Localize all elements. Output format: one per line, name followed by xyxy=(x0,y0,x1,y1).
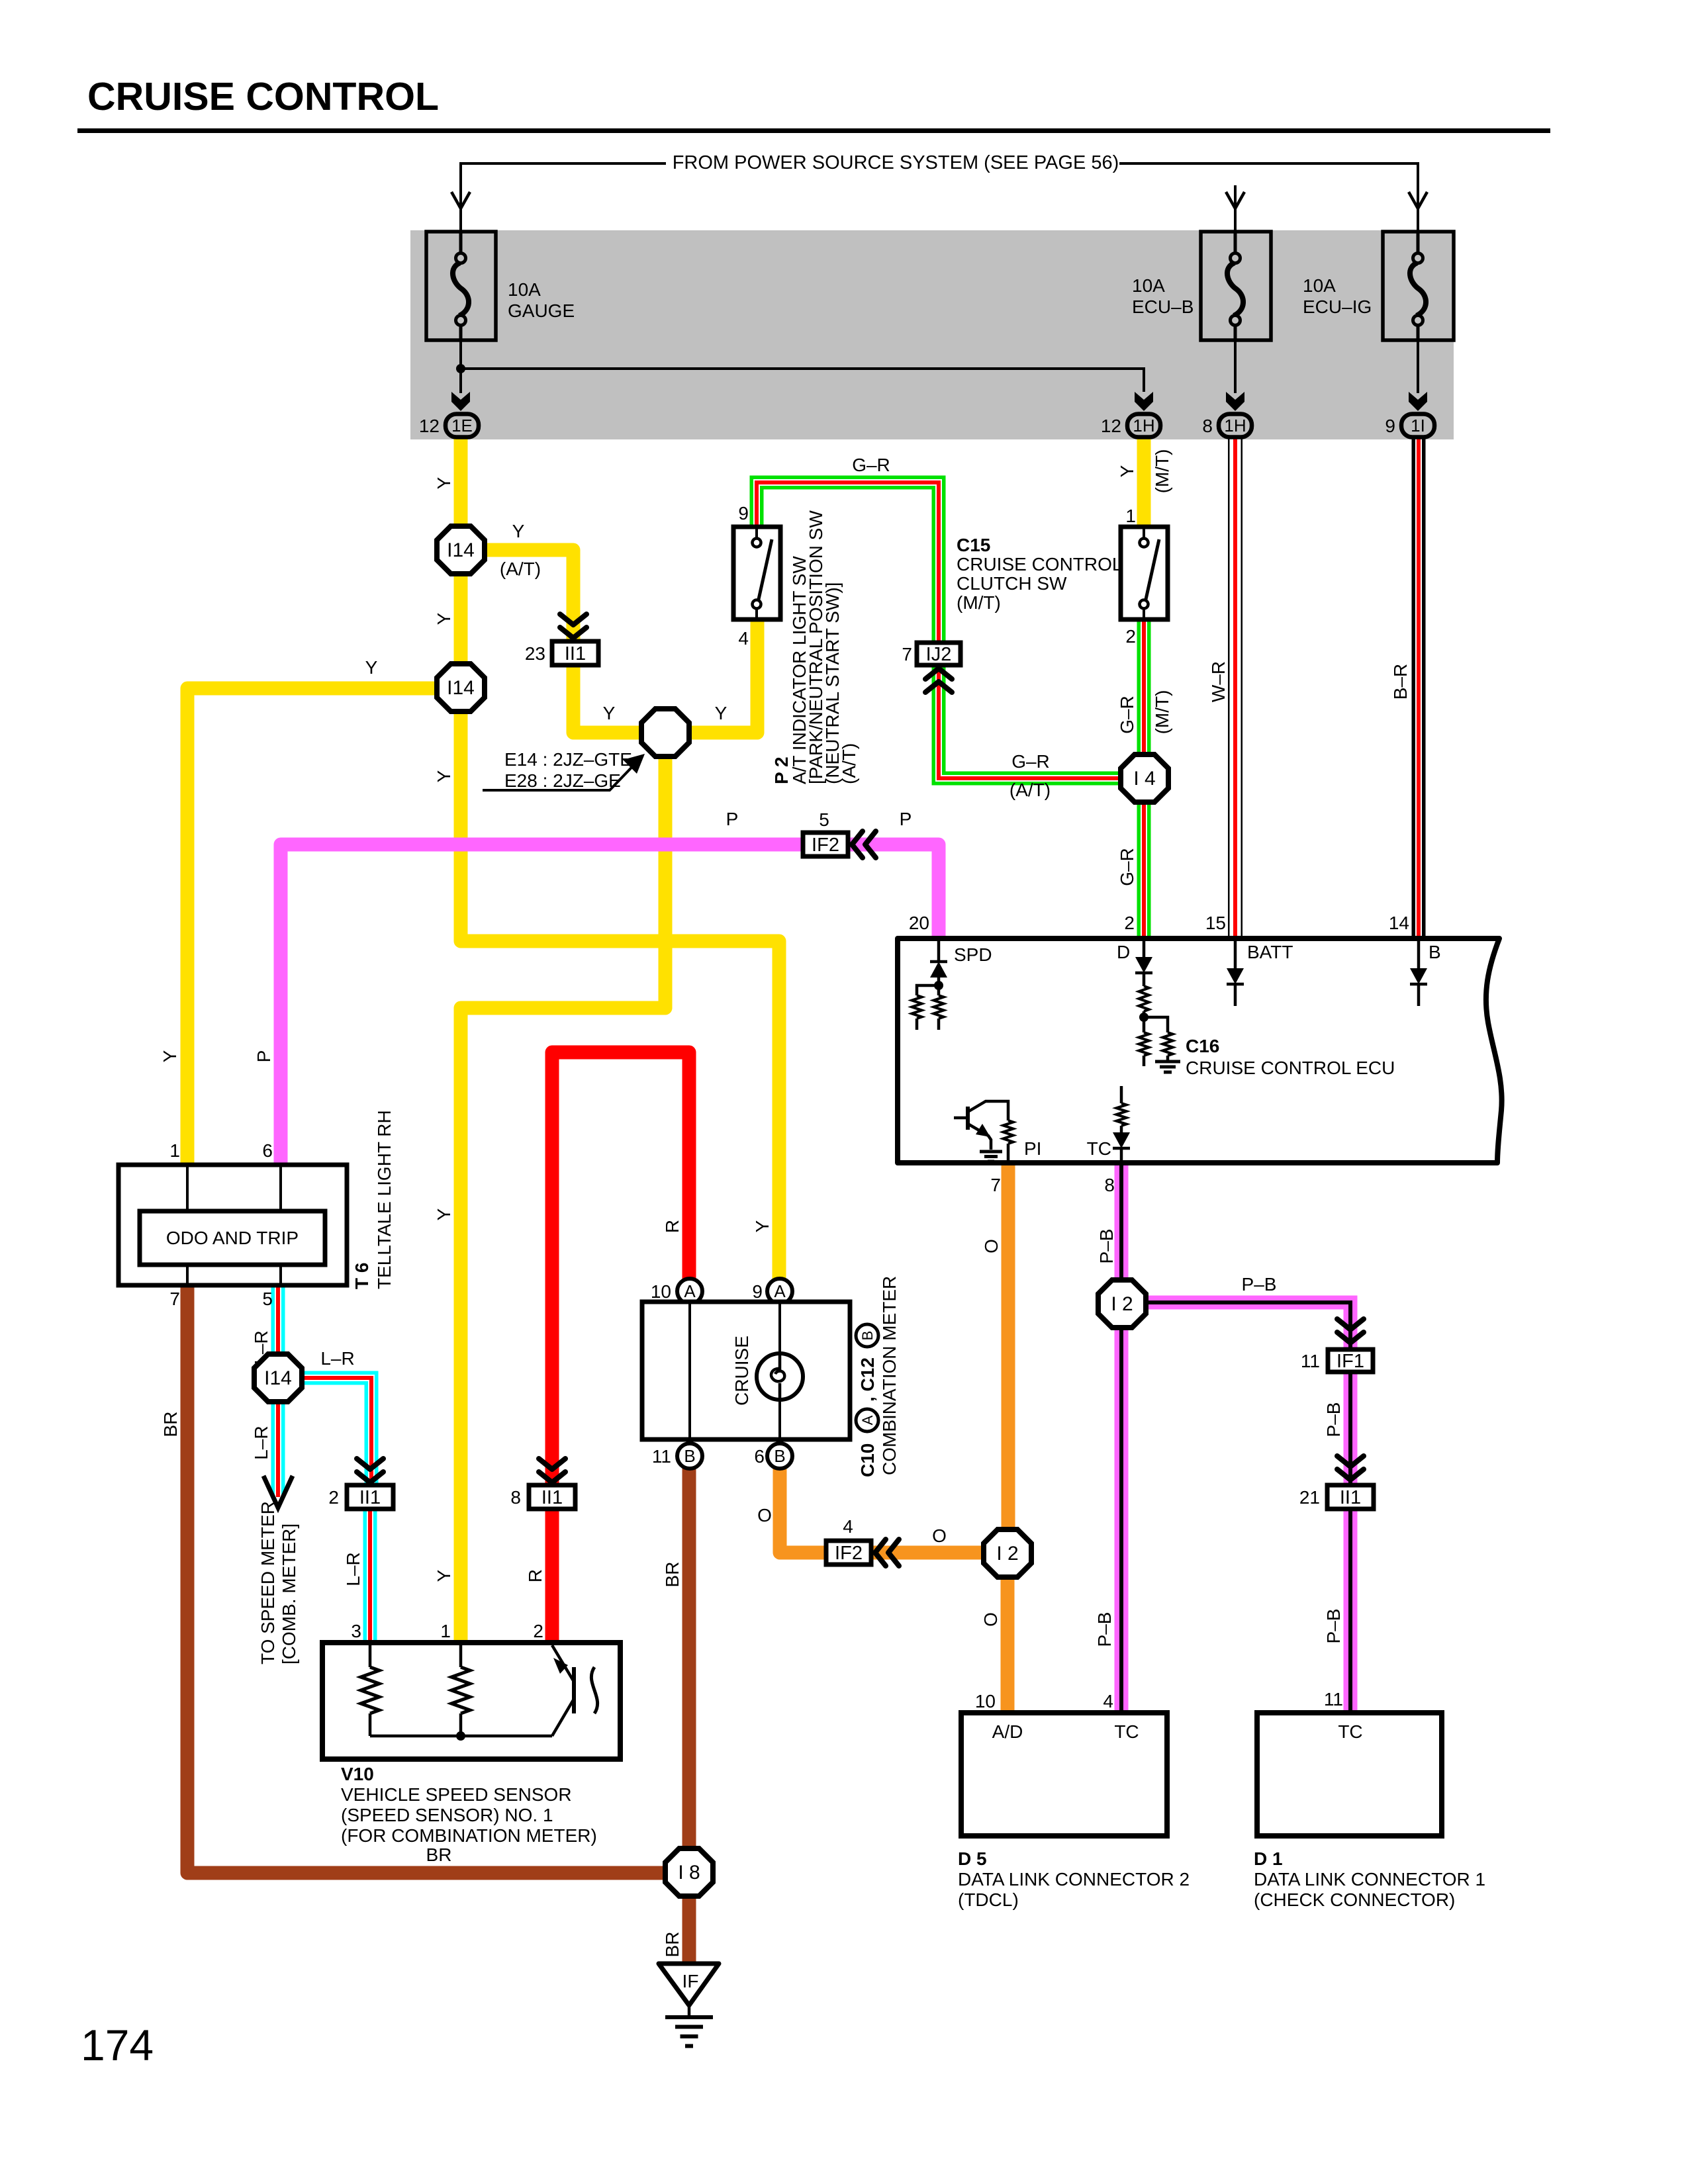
svg-text:I 2: I 2 xyxy=(996,1543,1018,1565)
svg-text:Y: Y xyxy=(434,1208,454,1220)
svg-text:A: A xyxy=(774,1281,786,1301)
wire fuse ECU-B to oval 1H-8 xyxy=(1234,340,1237,393)
combination meter cruise lamp box xyxy=(642,1302,850,1439)
wire O combination meter pin 6B to connector IF2 xyxy=(780,1466,828,1553)
wire fuse GAUGE output junction to fuse 1H-12 xyxy=(461,340,1144,392)
gray power-source strip xyxy=(410,230,1454,439)
fuse 10A ECU-B xyxy=(1201,232,1271,340)
svg-text:7: 7 xyxy=(902,644,912,664)
wire L-R connector II1-2 to V10 pin 3 xyxy=(363,1509,377,1644)
wire BR junction I8 to ground IF xyxy=(682,1894,696,1964)
junction connector I4 xyxy=(1121,754,1168,802)
meter pin 10 circle A xyxy=(677,1279,702,1304)
svg-text:P–B: P–B xyxy=(1323,1609,1344,1644)
junction connector I14 speed xyxy=(254,1354,302,1402)
svg-text:DATA LINK CONNECTOR 1: DATA LINK CONNECTOR 1 xyxy=(1254,1869,1485,1889)
svg-text:10A: 10A xyxy=(1303,275,1336,296)
switch C15 cruise control clutch xyxy=(1121,527,1168,619)
svg-text:12: 12 xyxy=(419,416,440,436)
svg-text:12: 12 xyxy=(1101,416,1121,436)
V10 resistor 2 xyxy=(459,1645,463,1667)
svg-text:Y: Y xyxy=(365,657,378,678)
wire W-R fuse 1H-8 to ECU pin 15 BATT xyxy=(1228,433,1243,938)
wire stub above fuse ECU-B xyxy=(1234,185,1237,232)
svg-text:(CHECK CONNECTOR): (CHECK CONNECTOR) xyxy=(1254,1889,1455,1910)
wire Y junction I14 lower to telltale T6 pin 1 xyxy=(187,688,440,1166)
ECU pin B diode xyxy=(1417,938,1421,968)
meter pin 6 circle B xyxy=(767,1443,792,1469)
wire Y fuse 1H-12 to clutch switch C15 pin 1 xyxy=(1137,433,1151,529)
svg-text:10: 10 xyxy=(975,1691,996,1711)
oval connector 1I pin 9 xyxy=(1385,414,1434,437)
svg-text:Y: Y xyxy=(512,521,525,541)
wire O ECU pin 7 PI to junction I2 xyxy=(1002,1161,1015,1532)
svg-text:B–R: B–R xyxy=(1390,664,1411,700)
svg-text:IF: IF xyxy=(682,1971,699,1991)
svg-text:BR: BR xyxy=(662,1562,682,1588)
svg-text:VEHICLE SPEED SENSOR: VEHICLE SPEED SENSOR xyxy=(341,1784,572,1805)
svg-text:P–B: P–B xyxy=(1323,1402,1344,1437)
svg-text:I14: I14 xyxy=(447,677,475,699)
svg-text:IF2: IF2 xyxy=(812,835,839,856)
svg-text:TELLTALE LIGHT RH: TELLTALE LIGHT RH xyxy=(374,1110,395,1289)
svg-text:11: 11 xyxy=(1324,1689,1343,1709)
svg-text:Y: Y xyxy=(434,612,454,625)
arrow into fuse ECU-B xyxy=(1226,192,1244,208)
svg-text:E28 : 2JZ–GE: E28 : 2JZ–GE xyxy=(504,770,621,791)
svg-text:10A: 10A xyxy=(508,279,541,300)
wire B-R fuse 1I-9 to ECU pin 14 B xyxy=(1412,433,1426,938)
wire fuse GAUGE to oval 1E xyxy=(459,369,462,393)
connector IF2 pin 4 xyxy=(826,1541,871,1565)
svg-text:4: 4 xyxy=(1103,1691,1113,1711)
chevron into II1-8 xyxy=(539,1459,565,1482)
wire P telltale T6 pin 6 to connector IF2 xyxy=(281,844,805,1166)
svg-text:11: 11 xyxy=(652,1446,671,1467)
connector II1-23 xyxy=(552,641,598,665)
wire Y engine junction to P2 pin 4 xyxy=(688,617,757,733)
wire from power source right segment xyxy=(1119,163,1418,232)
svg-text:1H: 1H xyxy=(1224,416,1246,435)
data link connector D5 box xyxy=(961,1713,1167,1836)
svg-text:ECU–B: ECU–B xyxy=(1132,296,1194,317)
svg-text:10A: 10A xyxy=(1132,275,1165,296)
svg-text:(A/T): (A/T) xyxy=(1009,780,1051,800)
wire P connector IF2 to ECU pin 20 xyxy=(847,844,939,938)
ground hatching xyxy=(665,2017,713,2046)
svg-text:(A/T): (A/T) xyxy=(500,559,541,579)
wire G-R connector IJ2 to junction I4 xyxy=(939,664,1123,778)
svg-text:DATA LINK CONNECTOR 2: DATA LINK CONNECTOR 2 xyxy=(958,1869,1190,1889)
svg-text:CRUISE CONTROL: CRUISE CONTROL xyxy=(87,75,439,118)
svg-text:2: 2 xyxy=(533,1621,543,1641)
svg-text:A: A xyxy=(684,1281,696,1301)
svg-text:Y: Y xyxy=(752,1220,773,1232)
connector IJ2 pin 7 xyxy=(917,643,961,665)
oval connector 1H pin 8 xyxy=(1202,414,1252,437)
svg-text:IF1: IF1 xyxy=(1336,1351,1364,1372)
wire fuse ECU-IG to oval 1I-9 xyxy=(1417,340,1419,393)
svg-text:Y: Y xyxy=(160,1050,180,1062)
wire O connector IF2 to junction I2 xyxy=(870,1546,986,1560)
svg-text:BATT: BATT xyxy=(1247,942,1293,962)
svg-text:8: 8 xyxy=(510,1487,521,1508)
wire O junction I2 to D5 pin 10 xyxy=(1001,1575,1015,1714)
ECU pin TC circuit xyxy=(1120,1086,1123,1103)
svg-text:(M/T): (M/T) xyxy=(957,592,1001,613)
svg-text:CLUTCH SW: CLUTCH SW xyxy=(957,573,1067,594)
svg-text:PI: PI xyxy=(1024,1138,1041,1159)
wire P-B junction I2 to connector IF1 xyxy=(1144,1302,1350,1351)
oval connector 1H pin 12 xyxy=(1101,414,1160,437)
svg-text:D: D xyxy=(1117,942,1130,962)
svg-text:174: 174 xyxy=(81,2021,154,2070)
svg-text:Y: Y xyxy=(434,1569,454,1582)
svg-text:GAUGE: GAUGE xyxy=(508,300,575,321)
svg-text:Y: Y xyxy=(434,477,454,489)
ECU pin BATT diode xyxy=(1234,938,1237,968)
svg-text:9: 9 xyxy=(752,1281,763,1302)
svg-text:4: 4 xyxy=(843,1516,853,1537)
svg-text:A/D: A/D xyxy=(992,1721,1023,1742)
chevron into II1-2 xyxy=(357,1459,383,1482)
wire from power source left segment xyxy=(461,163,666,232)
arrow into fuse GAUGE xyxy=(451,192,470,208)
svg-text:L–R: L–R xyxy=(343,1552,363,1586)
svg-text:TC: TC xyxy=(1114,1721,1139,1742)
svg-text:II1: II1 xyxy=(541,1487,563,1508)
svg-text:A: A xyxy=(859,1415,876,1425)
V10 internal bus xyxy=(370,1735,552,1738)
svg-text:P: P xyxy=(900,809,912,829)
svg-text:6: 6 xyxy=(262,1140,273,1161)
svg-text:FROM POWER SOURCE SYSTEM (SEE: FROM POWER SOURCE SYSTEM (SEE PAGE 56) xyxy=(673,152,1119,173)
junction connector I14 upper xyxy=(437,526,485,574)
arrow to speed meter xyxy=(263,1476,293,1508)
fuse 10A ECU-IG xyxy=(1383,232,1454,340)
svg-text:G–R: G–R xyxy=(1117,848,1137,886)
ECU C16 cruise control ECU box xyxy=(898,938,1502,1163)
ODO AND TRIP box xyxy=(140,1211,325,1265)
connector II1-2 xyxy=(347,1485,393,1509)
svg-text:TC: TC xyxy=(1338,1721,1362,1742)
chevron right of IF2 lower xyxy=(875,1539,899,1566)
chevron into connector II1-23 xyxy=(560,614,586,638)
wire P-B ECU pin 8 TC to junction I2 xyxy=(1115,1161,1129,1282)
svg-text:BR: BR xyxy=(662,1932,682,1958)
svg-text:23: 23 xyxy=(525,643,545,664)
svg-text:, C12: , C12 xyxy=(857,1357,878,1402)
svg-text:Y: Y xyxy=(715,703,727,723)
wire L-R junction I14 to speed meter arrow xyxy=(271,1400,285,1497)
svg-text:CRUISE CONTROL: CRUISE CONTROL xyxy=(957,554,1122,574)
wire Y junction I14 to connector II1-23 xyxy=(483,550,573,640)
chevron below connector IJ2 xyxy=(925,668,952,692)
svg-text:IF2: IF2 xyxy=(835,1543,863,1564)
svg-text:R: R xyxy=(662,1220,682,1233)
svg-text:2: 2 xyxy=(1124,913,1135,933)
svg-text:I 8: I 8 xyxy=(678,1862,700,1884)
chevron right of IF2 xyxy=(852,831,876,858)
ECU transistor PI circuit xyxy=(966,1107,970,1130)
svg-text:CRUISE: CRUISE xyxy=(731,1336,752,1406)
svg-text:8: 8 xyxy=(1202,416,1213,436)
svg-text:1H: 1H xyxy=(1133,416,1154,435)
svg-text:6: 6 xyxy=(754,1446,765,1467)
svg-text:P: P xyxy=(726,809,739,829)
svg-text:T 6: T 6 xyxy=(352,1263,372,1289)
chevron into IF1 xyxy=(1337,1319,1364,1343)
svg-text:2: 2 xyxy=(1125,626,1136,647)
svg-text:5: 5 xyxy=(819,809,829,830)
svg-text:B: B xyxy=(859,1331,876,1341)
svg-text:1: 1 xyxy=(169,1140,180,1161)
svg-text:BR: BR xyxy=(160,1412,181,1437)
svg-text:G–R: G–R xyxy=(852,455,890,475)
svg-text:I 4: I 4 xyxy=(1133,768,1155,790)
svg-text:14: 14 xyxy=(1389,913,1409,933)
svg-text:G–R: G–R xyxy=(1011,751,1050,772)
connector II1-21 xyxy=(1327,1485,1374,1509)
svg-text:R: R xyxy=(525,1569,545,1582)
svg-text:G–R: G–R xyxy=(1117,696,1137,734)
svg-text:TO SPEED METER: TO SPEED METER xyxy=(258,1501,278,1664)
svg-text:BR: BR xyxy=(426,1844,452,1865)
solid arrow into oval 1I-9 xyxy=(1409,392,1427,411)
svg-text:O: O xyxy=(757,1505,772,1525)
svg-text:COMBINATION METER: COMBINATION METER xyxy=(879,1276,900,1475)
wire G-R P2 pin 9 loop to connector IJ2 xyxy=(757,482,939,643)
oval connector 1E pin 12 xyxy=(419,414,479,437)
wire G-R clutch switch C15 pin 2 to junction I4 xyxy=(1137,617,1151,756)
meter pin 9 circle A xyxy=(767,1279,792,1304)
svg-text:L–R: L–R xyxy=(320,1348,354,1369)
junction dot below fuse GAUGE xyxy=(456,364,465,373)
svg-text:(SPEED SENSOR) NO. 1: (SPEED SENSOR) NO. 1 xyxy=(341,1805,553,1825)
svg-text:(FOR COMBINATION METER): (FOR COMBINATION METER) xyxy=(341,1825,597,1846)
V10 pickup transistor xyxy=(552,1645,574,1682)
engine junction octagon xyxy=(641,709,689,756)
svg-text:1: 1 xyxy=(440,1621,451,1641)
connector IF1 pin 11 xyxy=(1328,1349,1373,1372)
svg-text:I14: I14 xyxy=(264,1367,292,1389)
wire Y engine junction down-left to V10 pin 1 xyxy=(461,754,665,1644)
wire BR combination meter pin 11B to junction I8 xyxy=(682,1466,696,1850)
svg-text:D 5: D 5 xyxy=(958,1848,987,1869)
svg-text:(TDCL): (TDCL) xyxy=(958,1889,1019,1910)
wire L-R junction I14 to connector II1-2 xyxy=(300,1378,371,1486)
wire L-R telltale T6 pin 5 to junction I14 xyxy=(271,1287,285,1356)
svg-text:P–B: P–B xyxy=(1096,1229,1117,1264)
svg-text:4: 4 xyxy=(738,628,749,649)
svg-text:C15: C15 xyxy=(957,535,990,555)
svg-text:P–B: P–B xyxy=(1242,1274,1277,1295)
wire G-R junction I4 to ECU pin 2 D xyxy=(1137,800,1151,938)
title rule xyxy=(77,128,1550,133)
svg-text:1I: 1I xyxy=(1411,416,1425,435)
svg-text:(M/T): (M/T) xyxy=(1152,449,1172,494)
svg-text:SPD: SPD xyxy=(954,944,992,965)
svg-text:D 1: D 1 xyxy=(1254,1848,1283,1869)
svg-text:Y: Y xyxy=(434,770,454,782)
wire P-B connector IF1 to connector II1-21 xyxy=(1344,1370,1358,1486)
svg-text:II1: II1 xyxy=(1340,1487,1361,1508)
ground IF triangle xyxy=(659,1964,719,2005)
junction connector I8 xyxy=(665,1848,713,1896)
svg-text:E14 : 2JZ–GTE: E14 : 2JZ–GTE xyxy=(504,749,632,770)
svg-text:9: 9 xyxy=(1385,416,1395,436)
svg-text:C10: C10 xyxy=(857,1443,878,1477)
svg-text:7: 7 xyxy=(990,1175,1001,1195)
junction connector I2 upper xyxy=(1098,1280,1146,1328)
svg-text:IJ2: IJ2 xyxy=(926,644,952,665)
ECU pin SPD circuit xyxy=(937,938,941,961)
telltale light T6 box xyxy=(118,1165,347,1285)
svg-text:2: 2 xyxy=(328,1487,339,1508)
svg-text:21: 21 xyxy=(1299,1487,1320,1508)
svg-text:20: 20 xyxy=(909,913,929,933)
fuse 10A GAUGE xyxy=(426,232,496,340)
junction connector I2 lower xyxy=(984,1529,1031,1577)
solid arrow into oval 1E xyxy=(451,392,470,411)
svg-text:V10: V10 xyxy=(341,1764,374,1784)
switch P2 park/neutral position xyxy=(733,527,780,619)
wire Y fuse 1E to junction I14 xyxy=(454,433,468,529)
solid arrow into oval 1H-12 xyxy=(1135,392,1153,411)
wire P-B junction I2 to D5 pin 4 TC xyxy=(1115,1326,1129,1714)
svg-text:O: O xyxy=(981,1239,1002,1253)
svg-text:ECU–IG: ECU–IG xyxy=(1303,296,1372,317)
svg-text:CRUISE CONTROL ECU: CRUISE CONTROL ECU xyxy=(1186,1058,1395,1078)
wire Y connector II1-23 to engine junction xyxy=(573,665,643,733)
svg-text:3: 3 xyxy=(351,1621,361,1641)
wire BR telltale T6 pin 7 to junction I8 xyxy=(187,1287,667,1873)
svg-text:Y: Y xyxy=(1117,465,1137,477)
ECU pin D circuit xyxy=(1143,938,1146,957)
svg-text:W–R: W–R xyxy=(1208,661,1229,702)
svg-text:B: B xyxy=(684,1446,695,1466)
svg-text:10: 10 xyxy=(651,1281,671,1302)
svg-text:11: 11 xyxy=(1301,1351,1320,1371)
svg-text:(M/T): (M/T) xyxy=(1152,690,1172,735)
cruise indicator bulb xyxy=(757,1353,803,1400)
svg-text:I14: I14 xyxy=(447,539,475,561)
svg-text:P–B: P–B xyxy=(1094,1612,1115,1647)
svg-text:15: 15 xyxy=(1205,913,1226,933)
wire R V10 pin 2 to combination meter pin 10A xyxy=(552,1052,689,1644)
solid arrow into oval 1H-8 xyxy=(1226,392,1244,411)
svg-text:Y: Y xyxy=(603,703,616,723)
svg-text:(A/T): (A/T) xyxy=(839,743,859,784)
svg-text:TC: TC xyxy=(1087,1138,1111,1159)
svg-text:C16: C16 xyxy=(1186,1036,1219,1056)
svg-text:1E: 1E xyxy=(451,416,473,435)
connector IF2 pin 5 xyxy=(803,833,848,856)
meter pin 11 circle B xyxy=(677,1443,702,1469)
svg-text:[COMB. METER]: [COMB. METER] xyxy=(279,1524,299,1664)
V10 resistor 1 xyxy=(369,1645,372,1667)
svg-text:L–R: L–R xyxy=(251,1426,271,1459)
junction connector I14 lower xyxy=(437,664,485,711)
connector II1-8 xyxy=(529,1485,575,1509)
arrow into fuse ECU-IG xyxy=(1409,192,1427,208)
svg-text:1: 1 xyxy=(1125,506,1136,526)
svg-text:5: 5 xyxy=(262,1289,273,1309)
svg-text:B: B xyxy=(774,1446,785,1466)
svg-text:7: 7 xyxy=(169,1289,180,1309)
svg-text:B: B xyxy=(1429,942,1441,962)
vehicle speed sensor V10 box xyxy=(322,1643,620,1759)
svg-text:P: P xyxy=(254,1050,274,1063)
svg-text:II1: II1 xyxy=(359,1487,381,1508)
wire Y junction I14 to junction I14 lower xyxy=(454,572,468,666)
svg-text:II1: II1 xyxy=(565,643,586,664)
svg-text:O: O xyxy=(932,1525,947,1546)
svg-text:8: 8 xyxy=(1104,1175,1115,1195)
chevron into II1-21 xyxy=(1337,1456,1364,1480)
wire P-B connector II1-21 to D1 pin 11 xyxy=(1344,1509,1358,1714)
svg-text:ODO AND TRIP: ODO AND TRIP xyxy=(166,1228,299,1248)
svg-text:9: 9 xyxy=(738,503,749,523)
data link connector D1 box xyxy=(1257,1713,1442,1836)
wire Y junction I14 lower to combination meter pin 9A xyxy=(461,709,779,1281)
svg-text:I 2: I 2 xyxy=(1111,1293,1133,1315)
svg-text:O: O xyxy=(980,1612,1001,1627)
